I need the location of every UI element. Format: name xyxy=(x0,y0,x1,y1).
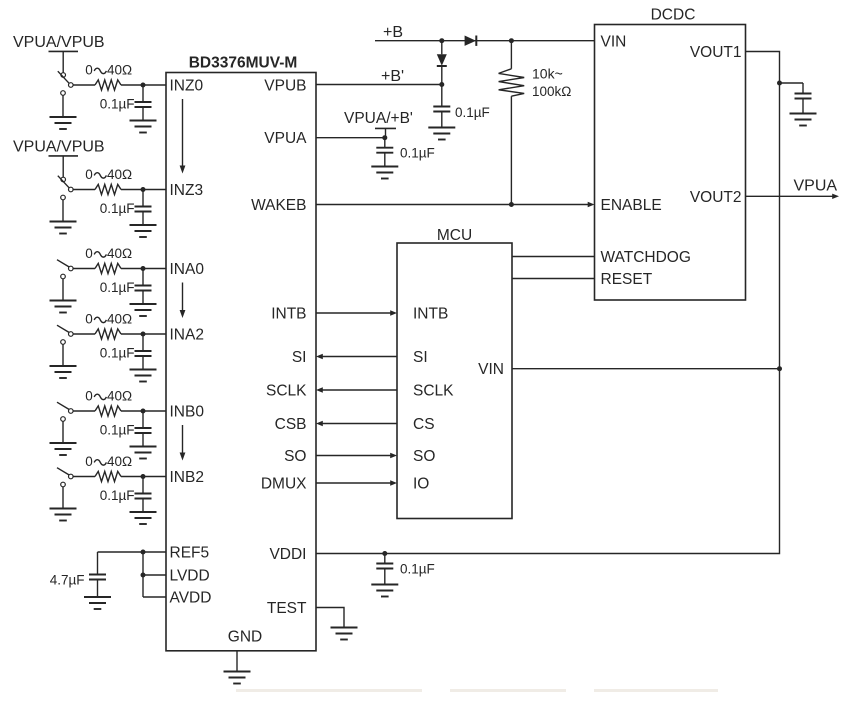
svg-text:SCLK: SCLK xyxy=(413,382,454,399)
svg-text:WAKEB: WAKEB xyxy=(251,197,306,214)
wire GND pin to ground xyxy=(236,651,238,672)
node junction LVDD tie xyxy=(141,573,146,578)
switch S-INB0 lower contact xyxy=(61,417,66,422)
svg-text:0: 0 xyxy=(85,388,93,403)
capacitor C3 on VOUT1 xyxy=(795,83,812,114)
switch S-INB2 lower contact xyxy=(61,482,66,487)
svg-text:VPUA: VPUA xyxy=(264,130,307,147)
svg-text:0.1µF: 0.1µF xyxy=(400,146,435,161)
node junction +B / R1 xyxy=(509,38,514,43)
ground for switch INA2 xyxy=(50,366,77,378)
svg-text:0.1µF: 0.1µF xyxy=(100,345,135,360)
svg-text:SO: SO xyxy=(284,448,306,465)
arrow pin-range indicator xyxy=(182,283,184,311)
capacitor 0.1uF INA0 xyxy=(135,269,152,305)
switch S-INB0 lever xyxy=(57,402,69,409)
svg-text:DMUX: DMUX xyxy=(261,475,307,492)
svg-text:RESET: RESET xyxy=(601,271,653,288)
capacitor 0.1uF INZ0 xyxy=(135,85,152,121)
node junction REF5 tie xyxy=(141,550,146,555)
ground for capacitor INB2 xyxy=(130,512,157,524)
ground for capacitor INZ3 xyxy=(130,225,157,237)
svg-text:VPUA/+B': VPUA/+B' xyxy=(344,110,413,127)
svg-text:40Ω: 40Ω xyxy=(107,311,132,326)
node junction at INA2 pin xyxy=(141,332,146,337)
svg-text:INTB: INTB xyxy=(271,305,306,322)
svg-text:40Ω: 40Ω xyxy=(107,167,132,182)
ground for C2 xyxy=(371,167,398,179)
svg-text:0.1µF: 0.1µF xyxy=(100,422,135,437)
wire rail bar to VPUA node xyxy=(385,128,387,137)
node junction at INB2 pin xyxy=(141,474,146,479)
switch S-INA2 pole contact xyxy=(69,332,74,337)
arrow pin-range indicator xyxy=(182,99,184,166)
ground for switch INA0 xyxy=(50,301,77,313)
ground for switch INB0 xyxy=(50,443,77,455)
wire switch lower contact to ground INA2 xyxy=(62,344,64,366)
wire resistor to pin INB2 xyxy=(121,476,166,478)
svg-text:INZ3: INZ3 xyxy=(170,182,204,199)
capacitor C4 4.7uF on REF5 xyxy=(89,552,106,597)
wire switch to resistor INZ0 xyxy=(73,84,95,86)
wire resistor to pin INZ3 xyxy=(121,189,166,191)
switch S-INA2 lower contact xyxy=(61,340,66,345)
wire VOUT2 VPUA output xyxy=(746,195,833,197)
svg-text:VPUA: VPUA xyxy=(794,178,838,195)
svg-text:CSB: CSB xyxy=(275,416,307,433)
node junction VPUA xyxy=(382,135,387,140)
wire WAKEB to ENABLE xyxy=(316,204,588,206)
arrow pin-range indicator xyxy=(182,425,184,453)
node junction VDDI / C5 xyxy=(382,551,387,556)
switch S-INZ0 top contact xyxy=(61,73,66,78)
ground for capacitor INB0 xyxy=(130,447,157,459)
ground for capacitor INA2 xyxy=(130,370,157,382)
svg-text:VOUT2: VOUT2 xyxy=(690,189,742,206)
capacitor C1 0.1uF on +B' xyxy=(433,85,450,128)
wire switch lower contact to ground INB0 xyxy=(62,421,64,443)
node junction R1 / ENABLE xyxy=(509,202,514,207)
IC U2 DCDC outline xyxy=(595,25,746,301)
ground for capacitor INZ0 xyxy=(130,121,157,133)
wire switch to resistor INB2 xyxy=(73,476,95,478)
svg-text:0: 0 xyxy=(85,246,93,261)
resistor 0~40ohm INA0 xyxy=(95,263,121,273)
resistor 0~40ohm INB2 xyxy=(95,471,121,481)
svg-text:MCU: MCU xyxy=(437,227,472,244)
wire MCU reset to U2 RESET xyxy=(512,278,595,280)
svg-text:VDDI: VDDI xyxy=(269,546,306,563)
svg-text:VIN: VIN xyxy=(601,33,627,50)
IC U1 BD3376MUV-M outline xyxy=(166,73,316,651)
IC U3 MCU outline xyxy=(397,243,512,519)
resistor 0~40ohm INZ0 xyxy=(95,80,121,90)
wire resistor to pin INA2 xyxy=(121,333,166,335)
wire VPUA pin to junction xyxy=(316,137,385,139)
svg-text:40Ω: 40Ω xyxy=(107,246,132,261)
faint caption artifact xyxy=(236,689,718,692)
svg-text:10k~: 10k~ xyxy=(532,65,563,81)
capacitor 0.1uF INB2 xyxy=(135,477,152,513)
svg-text:0.1µF: 0.1µF xyxy=(455,105,490,120)
svg-text:GND: GND xyxy=(228,629,262,646)
capacitor 0.1uF INB0 xyxy=(135,411,152,447)
svg-text:0.1µF: 0.1µF xyxy=(100,201,135,216)
wire MCU VIN to right rail xyxy=(512,368,780,370)
resistor 0~40ohm INA2 xyxy=(95,329,121,339)
wire D2 to +B' node xyxy=(441,66,443,85)
svg-text:INZ0: INZ0 xyxy=(170,77,204,94)
wire switch lower contact to ground INB2 xyxy=(62,487,64,509)
resistor 0~40ohm INB0 xyxy=(95,406,121,416)
switch S-INA0 pole contact xyxy=(69,266,74,271)
ground for TEST xyxy=(331,628,358,640)
wire REF5 xyxy=(98,551,167,553)
wire LVDD xyxy=(143,574,166,576)
svg-text:LVDD: LVDD xyxy=(170,567,210,584)
node junction at INZ3 pin xyxy=(141,187,146,192)
wire rail to C3 xyxy=(780,82,804,84)
node junction +B' xyxy=(439,82,444,87)
wire SCLK xyxy=(323,389,398,391)
svg-text:REF5: REF5 xyxy=(170,544,210,561)
svg-text:0: 0 xyxy=(85,454,93,469)
capacitor C5 0.1uF on VDDI xyxy=(376,554,393,585)
svg-text:TEST: TEST xyxy=(267,600,307,617)
svg-text:IO: IO xyxy=(413,475,429,492)
wire DMUX-IO xyxy=(316,482,391,484)
svg-text:VIN: VIN xyxy=(478,361,504,378)
switch S-INB2 pole contact xyxy=(69,474,74,479)
wire resistor to pin INB0 xyxy=(121,410,166,412)
wire switch lower contact to ground INZ3 xyxy=(62,200,64,222)
svg-text:SI: SI xyxy=(292,349,307,366)
switch S-INB2 lever xyxy=(57,468,69,475)
wire INTB xyxy=(316,312,391,314)
ground for C5 xyxy=(371,585,398,597)
svg-text:VPUB: VPUB xyxy=(264,77,306,94)
wire switch lower contact to ground INZ0 xyxy=(62,95,64,117)
supply rail bar for INZ3 xyxy=(49,155,79,157)
svg-text:0.1µF: 0.1µF xyxy=(100,488,135,503)
svg-text:0: 0 xyxy=(85,311,93,326)
wire TEST to ground xyxy=(316,608,344,628)
wire AVDD xyxy=(143,596,166,598)
svg-text:100kΩ: 100kΩ xyxy=(532,84,571,99)
capacitor C2 0.1uF on VPUA xyxy=(376,138,393,167)
resistor 0~40ohm INZ3 xyxy=(95,184,121,194)
svg-text:40Ω: 40Ω xyxy=(107,454,132,469)
svg-text:AVDD: AVDD xyxy=(170,589,212,606)
node junction at INA0 pin xyxy=(141,266,146,271)
switch S-INZ3 lower contact xyxy=(61,195,66,200)
switch S-INA2 lever xyxy=(57,325,69,332)
svg-text:4.7µF: 4.7µF xyxy=(50,572,85,587)
svg-text:0.1µF: 0.1µF xyxy=(100,96,135,111)
ground for capacitor INA0 xyxy=(130,304,157,316)
wire SI xyxy=(323,356,398,358)
svg-text:BD3376MUV-M: BD3376MUV-M xyxy=(189,55,298,72)
svg-text:+B': +B' xyxy=(381,68,404,85)
switch S-INZ3 top contact xyxy=(61,177,66,182)
wire CSB-CS xyxy=(323,423,398,425)
svg-text:40Ω: 40Ω xyxy=(107,388,132,403)
node junction at INZ0 pin xyxy=(141,83,146,88)
svg-text:INA2: INA2 xyxy=(170,326,204,343)
wire switch to resistor INA2 xyxy=(73,333,95,335)
node junction right rail / C3 xyxy=(777,81,782,86)
switch S-INZ0 pole contact xyxy=(69,83,74,88)
wire +B rail xyxy=(375,40,595,42)
ground for C4 xyxy=(84,597,111,609)
svg-text:VPUA/VPUB: VPUA/VPUB xyxy=(13,138,105,155)
svg-text:0.1µF: 0.1µF xyxy=(100,280,135,295)
svg-text:0: 0 xyxy=(85,62,93,77)
wire +B' (VPUB to junction) xyxy=(316,84,442,86)
supply rail bar VPUA/+B' xyxy=(375,127,396,129)
wire REF5-AVDD vertical tie xyxy=(142,552,144,597)
switch S-INB0 pole contact xyxy=(69,409,74,414)
wire VOUT1 to right rail xyxy=(316,52,780,554)
ground for switch INZ3 xyxy=(50,222,77,234)
svg-text:CS: CS xyxy=(413,416,435,433)
switch S-INZ3 lever xyxy=(58,176,69,188)
wire +B junction down to D2 xyxy=(441,41,443,55)
resistor R1 10k~100k pulldown xyxy=(510,41,512,69)
wire SO xyxy=(316,455,391,457)
switch S-INA0 lever xyxy=(57,260,69,267)
wire supply to switch INZ0 xyxy=(62,51,64,72)
diode D1 (series, anode left) xyxy=(465,36,476,46)
node junction +B / D2 xyxy=(439,38,444,43)
switch S-INA0 lower contact xyxy=(61,274,66,279)
wire resistor to pin INZ0 xyxy=(121,84,166,86)
capacitor 0.1uF INZ3 xyxy=(135,190,152,226)
node junction at INB0 pin xyxy=(141,409,146,414)
svg-text:SO: SO xyxy=(413,448,435,465)
svg-text:ENABLE: ENABLE xyxy=(601,197,662,214)
wire supply to switch INZ3 xyxy=(62,156,64,177)
wire MCU watchdog to U2 WATCHDOG xyxy=(512,256,595,258)
switch S-INZ0 lever xyxy=(58,71,69,83)
svg-text:SI: SI xyxy=(413,349,428,366)
switch S-INZ0 lower contact xyxy=(61,91,66,96)
svg-text:40Ω: 40Ω xyxy=(107,62,132,77)
ground for U1 GND xyxy=(224,672,251,684)
svg-text:0.1µF: 0.1µF xyxy=(400,562,435,577)
svg-text:+B: +B xyxy=(383,24,403,41)
ground for C3 xyxy=(790,114,817,126)
svg-text:WATCHDOG: WATCHDOG xyxy=(601,249,691,266)
wire resistor to pin INA0 xyxy=(121,268,166,270)
ground for C1 xyxy=(428,128,455,140)
svg-text:SCLK: SCLK xyxy=(266,382,307,399)
svg-text:INTB: INTB xyxy=(413,305,448,322)
svg-text:INB2: INB2 xyxy=(170,469,204,486)
svg-text:INA0: INA0 xyxy=(170,261,205,278)
switch S-INZ3 pole contact xyxy=(69,187,74,192)
ground for switch INB2 xyxy=(50,509,77,521)
supply rail bar for INZ0 xyxy=(49,50,79,52)
wire switch lower contact to ground INA0 xyxy=(62,279,64,301)
svg-text:VPUA/VPUB: VPUA/VPUB xyxy=(13,34,105,51)
diode D2 (to +B', cathode down) xyxy=(437,54,447,65)
wire switch to resistor INZ3 xyxy=(73,189,95,191)
node junction rail / MCU VIN xyxy=(777,366,782,371)
svg-text:DCDC: DCDC xyxy=(651,7,696,24)
svg-text:VOUT1: VOUT1 xyxy=(690,44,742,61)
svg-text:0: 0 xyxy=(85,167,93,182)
svg-text:INB0: INB0 xyxy=(170,403,205,420)
wire switch to resistor INB0 xyxy=(73,410,95,412)
wire switch to resistor INA0 xyxy=(73,268,95,270)
capacitor 0.1uF INA2 xyxy=(135,334,152,370)
ground for switch INZ0 xyxy=(50,117,77,129)
